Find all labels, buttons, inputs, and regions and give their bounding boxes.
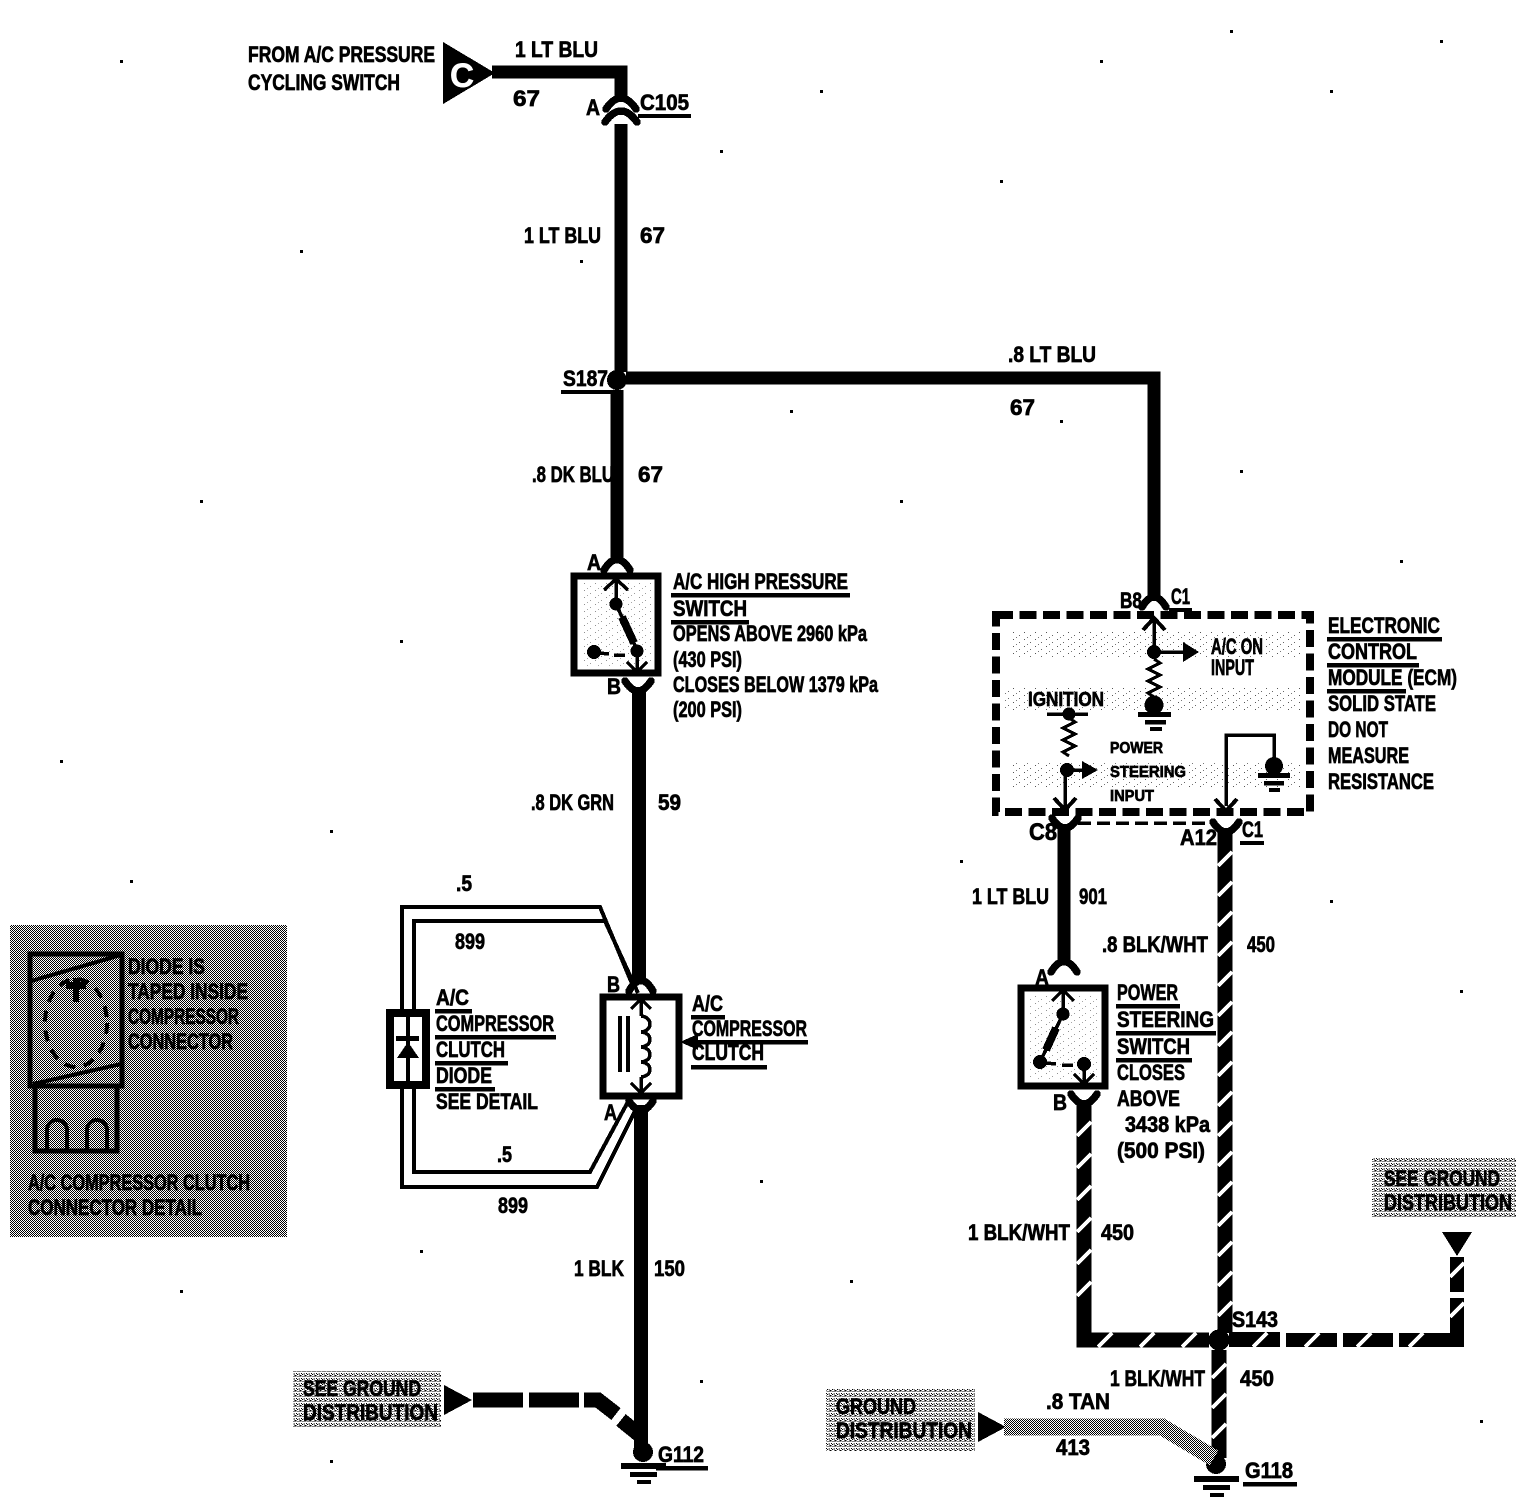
ECM internal ground (A/C on): [1145, 696, 1164, 715]
terminal C8 of ECM: [1052, 818, 1078, 828]
svg-text:DIODE IS: DIODE IS: [128, 954, 205, 979]
terminal B8 C1 of ECM: [1142, 597, 1166, 607]
clutch coil: [641, 1016, 650, 1077]
connector drawing upper shell: [30, 954, 122, 1086]
svg-text:CYCLING SWITCH: CYCLING SWITCH: [248, 70, 400, 95]
svg-text:C1: C1: [1171, 584, 1190, 609]
diode loop wire outer (899 circuit): [402, 907, 633, 1009]
svg-text:B: B: [607, 972, 620, 997]
wire: .8 TAN 413 from ground distribution to G118: [1004, 1427, 1214, 1458]
svg-text:FROM A/C PRESSURE: FROM A/C PRESSURE: [248, 42, 435, 67]
svg-text:150: 150: [654, 1256, 685, 1281]
svg-text:DO NOT: DO NOT: [1328, 717, 1388, 742]
svg-text:DIODE: DIODE: [436, 1063, 492, 1088]
ps switch movable blade: [1041, 1014, 1063, 1060]
svg-text:A/C: A/C: [692, 991, 723, 1016]
box: SEE GROUND DISTRIBUTION (right): [1372, 1157, 1516, 1218]
svg-text:DISTRIBUTION: DISTRIBUTION: [1384, 1190, 1512, 1215]
svg-text:G112: G112: [658, 1442, 704, 1467]
dashed connector line C1 between C8 and A12: [1078, 821, 1209, 825]
wire: .8 BLK/WHT 450 from A12 down: [1218, 830, 1233, 1333]
svg-text:C1: C1: [1242, 817, 1263, 842]
svg-text:COMPRESSOR: COMPRESSOR: [128, 1004, 239, 1029]
svg-text:A: A: [586, 95, 600, 120]
svg-text:67: 67: [1010, 395, 1035, 420]
svg-text:(430 PSI): (430 PSI): [673, 647, 742, 672]
svg-text:MODULE (ECM): MODULE (ECM): [1328, 665, 1457, 690]
wire: 1 LT BLU 67 from C105 down to splice S187: [615, 124, 628, 372]
svg-text:OPENS ABOVE 2960 kPa: OPENS ABOVE 2960 kPa: [673, 621, 868, 646]
arrow from see ground distribution (right): [1442, 1232, 1472, 1256]
svg-text:CONNECTOR: CONNECTOR: [128, 1029, 233, 1054]
svg-text:.8 TAN: .8 TAN: [1046, 1389, 1110, 1414]
svg-text:CLOSES: CLOSES: [1117, 1060, 1185, 1085]
off-page connector arrow C: [443, 42, 495, 104]
svg-text:CONTROL: CONTROL: [1328, 639, 1417, 664]
splice S143: [1209, 1330, 1230, 1351]
box: SEE GROUND DISTRIBUTION (left): [293, 1371, 441, 1428]
svg-text:CLOSES BELOW 1379 kPa: CLOSES BELOW 1379 kPa: [673, 672, 879, 697]
svg-text:S187: S187: [563, 366, 608, 391]
svg-text:COMPRESSOR: COMPRESSOR: [436, 1011, 554, 1036]
svg-text:A: A: [604, 1100, 617, 1125]
terminal A of A/C high pressure switch: [604, 560, 630, 571]
wire: 1 BLK/WHT 450 from switch B down and right to S143: [1084, 1100, 1209, 1340]
svg-text:C8: C8: [1029, 819, 1057, 846]
ECM ground loop at A12: [1226, 735, 1274, 806]
svg-text:SEE GROUND: SEE GROUND: [1384, 1166, 1500, 1191]
svg-text:901: 901: [1079, 884, 1107, 909]
ground G112: [633, 1442, 653, 1462]
ECM output arrow down to C8: [1063, 776, 1067, 807]
svg-text:INPUT: INPUT: [1110, 788, 1154, 805]
svg-text:TAPED INSIDE: TAPED INSIDE: [128, 979, 248, 1004]
ps switch arrow up inside: [1061, 991, 1065, 1011]
A/C compressor clutch box: [603, 997, 679, 1096]
svg-text:67: 67: [638, 462, 663, 487]
svg-text:1 BLK/WHT: 1 BLK/WHT: [968, 1220, 1070, 1245]
svg-text:.5: .5: [456, 871, 472, 896]
svg-text:67: 67: [640, 223, 665, 248]
svg-text:B: B: [1053, 1090, 1067, 1115]
svg-text:COMPRESSOR: COMPRESSOR: [692, 1016, 807, 1041]
svg-text:1 LT BLU: 1 LT BLU: [524, 223, 601, 248]
switch contact arrow up (terminal A inside): [614, 580, 618, 601]
svg-text:.8 DK BLU: .8 DK BLU: [532, 462, 614, 487]
switch movable contact blade: [616, 604, 637, 650]
svg-text:C: C: [450, 57, 474, 95]
svg-text:899: 899: [498, 1193, 528, 1218]
switch contact arrow down (terminal B inside): [635, 651, 639, 670]
svg-text:B: B: [607, 674, 621, 699]
svg-text:1 BLK: 1 BLK: [574, 1256, 624, 1281]
wire: .8 DK GRN 59 from switch B down to clutch: [632, 688, 646, 982]
svg-text:POWER: POWER: [1117, 980, 1178, 1005]
svg-text:A12: A12: [1180, 825, 1217, 850]
ECM dashed box: [996, 615, 1310, 812]
svg-text:RESISTANCE: RESISTANCE: [1328, 769, 1434, 794]
svg-text:STEERING: STEERING: [1117, 1007, 1214, 1032]
A/C ON INPUT arrow: [1154, 650, 1184, 654]
wire: 1 BLK 150 from clutch A down to G112: [634, 1105, 648, 1447]
connector C105 terminal A: [606, 98, 636, 109]
svg-text:POWER: POWER: [1110, 740, 1163, 757]
clutch terminal arrow up inside: [639, 1000, 643, 1016]
svg-text:B8: B8: [1120, 588, 1142, 613]
svg-text:67: 67: [513, 86, 540, 111]
connector drawing lower shell with cavities: [35, 1086, 117, 1151]
svg-text:S143: S143: [1232, 1307, 1278, 1332]
A/C compressor clutch diode box: [390, 1013, 426, 1085]
ECM input arrow up from B8: [1152, 617, 1156, 650]
ECM junction node (power steering): [1060, 763, 1074, 777]
svg-text:INPUT: INPUT: [1211, 655, 1254, 680]
svg-text:DISTRIBUTION: DISTRIBUTION: [836, 1418, 972, 1443]
svg-text:GROUND: GROUND: [836, 1394, 916, 1419]
svg-text:413: 413: [1056, 1435, 1090, 1460]
terminal A12 C1 of ECM: [1213, 822, 1239, 832]
svg-text:.8 LT BLU: .8 LT BLU: [1008, 342, 1096, 367]
pointer arrow from label to clutch box: [694, 1040, 808, 1045]
POWER STEERING INPUT arrow: [1067, 768, 1084, 772]
svg-text:ABOVE: ABOVE: [1117, 1086, 1180, 1111]
svg-text:G118: G118: [1245, 1458, 1293, 1483]
svg-text:1 LT BLU: 1 LT BLU: [515, 37, 598, 62]
wire: 1 BLK/WHT 450 from S143 down to G118: [1212, 1350, 1227, 1458]
ECM resistor (A/C on input): [1148, 659, 1160, 697]
ps switch arrow down inside: [1082, 1064, 1086, 1082]
dashed wire to G112: [473, 1393, 523, 1408]
svg-text:CLUTCH: CLUTCH: [436, 1037, 505, 1062]
svg-text:(500 PSI): (500 PSI): [1117, 1138, 1205, 1163]
terminal B of power steering switch: [1071, 1094, 1097, 1104]
svg-text:A/C: A/C: [436, 985, 469, 1010]
power steering switch box: [1021, 988, 1105, 1086]
box: GROUND DISTRIBUTION (bottom): [826, 1389, 975, 1451]
ECM junction node: [1147, 645, 1161, 659]
svg-text:ELECTRONIC: ELECTRONIC: [1328, 613, 1440, 638]
switch fixed contact left with dashes: [587, 645, 601, 659]
diode loop wire inner (899 circuit): [414, 921, 638, 1009]
svg-text:STEERING: STEERING: [1110, 764, 1186, 781]
svg-text:.8 DK GRN: .8 DK GRN: [531, 790, 614, 815]
terminal A of A/C compressor clutch: [629, 1101, 653, 1111]
ps switch fixed contact with dash: [1046, 1063, 1056, 1064]
svg-text:A/C HIGH PRESSURE: A/C HIGH PRESSURE: [673, 569, 848, 594]
diode symbol (cathode bar + triangle): [396, 1036, 419, 1041]
svg-text:.8 BLK/WHT: .8 BLK/WHT: [1102, 932, 1208, 957]
wire: from S143 right and up to ground distribution arrow: [1229, 1257, 1457, 1340]
ECM resistor (ignition): [1063, 718, 1075, 756]
svg-text:C105: C105: [640, 90, 689, 115]
svg-text:1 LT BLU: 1 LT BLU: [972, 884, 1049, 909]
svg-text:899: 899: [455, 929, 485, 954]
svg-text:SEE GROUND: SEE GROUND: [303, 1376, 421, 1401]
svg-text:59: 59: [658, 790, 681, 815]
ECM internal ground (A12 loop): [1265, 757, 1283, 775]
svg-text:A/C COMPRESSOR CLUTCH: A/C COMPRESSOR CLUTCH: [28, 1170, 250, 1195]
svg-text:CLUTCH: CLUTCH: [692, 1040, 764, 1065]
ground G118: [1206, 1454, 1226, 1474]
svg-text:450: 450: [1101, 1220, 1134, 1245]
wire: .8 DK BLU 67 from S187 down to switch: [611, 390, 624, 561]
terminal B of A/C high pressure switch: [625, 681, 651, 691]
svg-text:450: 450: [1240, 1366, 1274, 1391]
svg-text:SOLID STATE: SOLID STATE: [1328, 691, 1436, 716]
clutch plates: [618, 1016, 622, 1072]
connector detail inset box: [10, 925, 287, 1237]
svg-text:IGNITION: IGNITION: [1028, 689, 1104, 711]
splice S187: [607, 370, 627, 390]
A/C high pressure switch box: [574, 576, 658, 673]
wire: 1 LT BLU 901 from C8 down to power steering switch: [1058, 824, 1071, 963]
svg-text:SWITCH: SWITCH: [1117, 1034, 1190, 1059]
svg-text:SWITCH: SWITCH: [673, 596, 747, 621]
wire: 1 LT BLU 67 horizontal from arrow C to corner: [492, 72, 621, 96]
svg-text:SEE DETAIL: SEE DETAIL: [436, 1089, 538, 1114]
svg-text:A: A: [587, 550, 601, 575]
taped diode inside connector (dashed): [45, 979, 107, 1067]
arrow from ground distribution box: [978, 1412, 1006, 1442]
svg-text:3438 kPa: 3438 kPa: [1125, 1112, 1211, 1137]
svg-text:.5: .5: [497, 1142, 512, 1167]
svg-text:450: 450: [1247, 932, 1275, 957]
svg-text:1 BLK/WHT: 1 BLK/WHT: [1110, 1366, 1205, 1391]
svg-text:DISTRIBUTION: DISTRIBUTION: [303, 1400, 438, 1425]
svg-text:(200 PSI): (200 PSI): [673, 697, 742, 722]
clutch terminal arrow down inside: [639, 1077, 643, 1092]
arrow from see ground distribution (left): [444, 1385, 472, 1415]
svg-text:CONNECTOR DETAIL: CONNECTOR DETAIL: [28, 1195, 202, 1220]
svg-text:MEASURE: MEASURE: [1328, 743, 1409, 768]
terminal A of power steering switch: [1051, 962, 1077, 973]
terminal B of A/C compressor clutch: [629, 981, 653, 992]
wire: .8 LT BLU 67 from S187 right to ECM corner: [626, 378, 1154, 596]
